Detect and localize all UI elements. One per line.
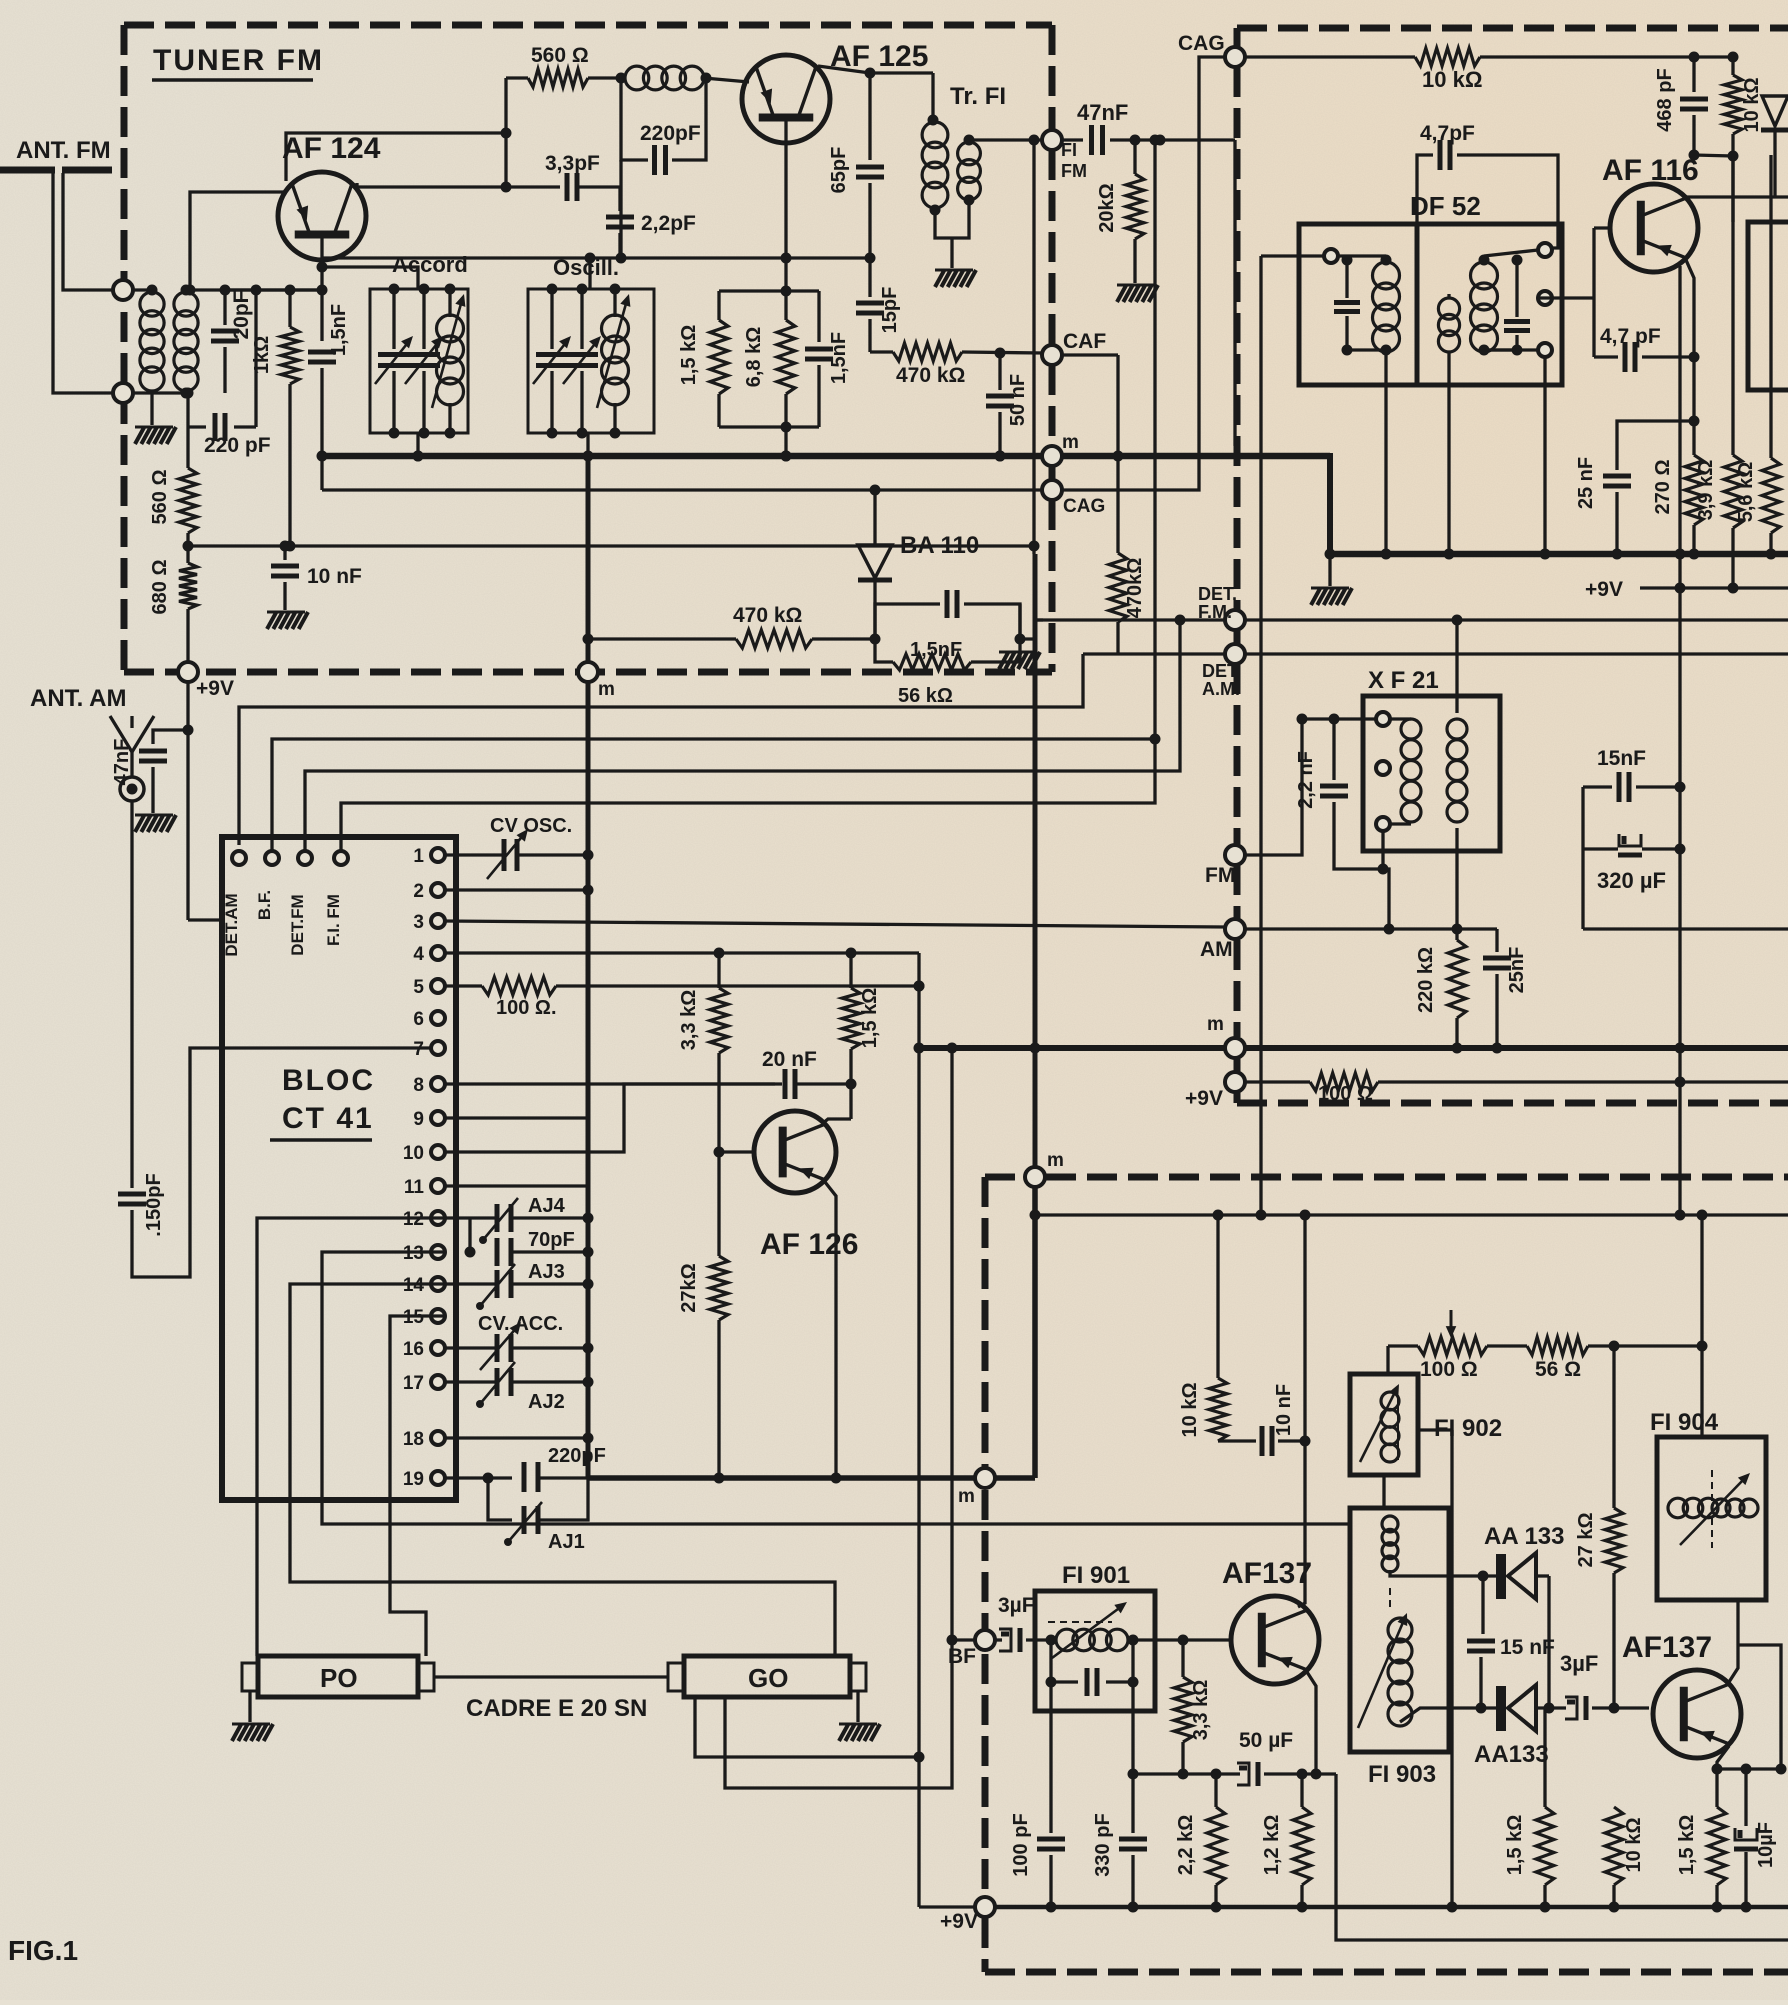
wire +9V feed vertical x1034 (1032, 140, 1035, 554)
wire AF137-2 collector to FI904 (1729, 1600, 1738, 1682)
resistor 3,9k ohm (1731, 155, 1734, 455)
pin 11 of BLOC CT41 (431, 1179, 445, 1193)
svg-text:9: 9 (413, 1109, 424, 1130)
TUNER FM block outline (dashed) (124, 25, 1052, 672)
wire DF52 mid tap to AF116 base (1538, 296, 1594, 299)
capacitor AJ4 on pin12 line (445, 1216, 497, 1219)
wire pin11 stub (445, 1184, 588, 1187)
svg-text:ANT. AM: ANT. AM (30, 685, 126, 712)
wire DF52 bottom node to rail (1543, 357, 1546, 554)
svg-text:10 kΩ: 10 kΩ (1179, 1383, 1201, 1438)
wire DF52 secondary bottom to rail (1447, 352, 1450, 554)
svg-text:m: m (958, 1486, 975, 1507)
wire W1 branch to GO (695, 1697, 919, 1757)
wire 10k bottom down to IF box (1731, 156, 1734, 222)
node AM (1225, 919, 1245, 939)
svg-text:+9V: +9V (196, 677, 234, 700)
wire AF126 emitter down (825, 1182, 836, 1478)
box Oscill tuned circuit (528, 289, 654, 433)
resistor 470k ohm detector (736, 630, 812, 648)
svg-text:Tr. FI: Tr. FI (950, 83, 1006, 110)
terminal cap GO right (850, 1663, 866, 1691)
wire main right vertical x1680 (1678, 266, 1681, 1215)
wire AF137-1 emitter down (1307, 1672, 1316, 1774)
svg-text:B.F.: B.F. (255, 890, 274, 920)
wire m rail corner down to IF rail (1327, 453, 1333, 554)
capacitor 330pF (1119, 1837, 1147, 1842)
resistor 27k ohm AM (1612, 1346, 1615, 1508)
svg-text:TUNER FM: TUNER FM (153, 44, 324, 77)
svg-text:AA 133: AA 133 (1484, 1523, 1564, 1550)
node m on lower box top border (1025, 1167, 1045, 1187)
svg-text:X F 21: X F 21 (1368, 667, 1439, 694)
svg-text:1,5 kΩ: 1,5 kΩ (1676, 1815, 1698, 1876)
AM IF block outline (dashed) (985, 1177, 1788, 1972)
wire antenna down (130, 801, 133, 1188)
svg-text:3,3 kΩ: 3,3 kΩ (1190, 1680, 1212, 1741)
capacitor 20pF (223, 290, 226, 325)
svg-text:470 kΩ: 470 kΩ (733, 604, 802, 627)
svg-text:4: 4 (413, 944, 424, 965)
svg-text:+9V: +9V (940, 1910, 978, 1933)
svg-text:CV OSC.: CV OSC. (490, 815, 572, 837)
inductor Accord tuning coil with arrow (448, 289, 451, 317)
wire to oscillator coil (588, 76, 621, 79)
svg-text:6,8 kΩ: 6,8 kΩ (743, 327, 765, 388)
pin 1 of BLOC CT41 (431, 848, 445, 862)
wire node to input coil (132, 288, 152, 291)
wire pin19 line with 220pF (445, 1476, 512, 1479)
wire pin14 left down to GO (290, 1284, 835, 1656)
svg-text:100 pF: 100 pF (1010, 1813, 1032, 1876)
capacitor AJ1 parallel (488, 1478, 512, 1520)
wire 470k det line (588, 637, 736, 640)
wire 680 ohm to +9V node (186, 609, 189, 663)
svg-text:CV. ACC.: CV. ACC. (478, 1313, 563, 1335)
wire AF137-2 emitter (1717, 1746, 1729, 1807)
capacitor 320uF electrolytic (1619, 834, 1641, 846)
wire pin9 stub (445, 1116, 588, 1119)
wire m AM rail (bold) (919, 1045, 1226, 1051)
resistor 470k ohm CAF (870, 350, 893, 353)
wire row to FI904 feed (1588, 1344, 1702, 1347)
svg-text:CAG: CAG (1063, 496, 1105, 517)
box FI901 (1035, 1591, 1155, 1711)
resistor 100 ohm pin5 (445, 984, 482, 987)
svg-text:1,2 kΩ: 1,2 kΩ (1261, 1815, 1283, 1876)
svg-text:3: 3 (413, 912, 424, 933)
wire 100 ohm right (1378, 1080, 1788, 1083)
inductor FM antenna coil secondary (174, 292, 198, 316)
svg-text:16: 16 (403, 1339, 424, 1360)
svg-text:DET.AM: DET.AM (222, 893, 241, 956)
svg-text:25nF: 25nF (1506, 947, 1528, 994)
box FI903 (1350, 1508, 1449, 1752)
svg-text:AJ1: AJ1 (548, 1531, 585, 1553)
wire FI904 top feed (1700, 1435, 1703, 1438)
node XF21 in bottom (1376, 817, 1390, 831)
wire pin18 to bus (445, 1436, 588, 1439)
resistor 10k ohm det (1605, 1807, 1623, 1885)
wire CAF to 470k branch (1061, 353, 1118, 356)
capacitor 220pF osc (522, 1462, 527, 1492)
pin 6 of BLOC CT41 (431, 1011, 445, 1025)
inductor FI902 coil with arrow (1381, 1392, 1399, 1410)
svg-text:AF 124: AF 124 (282, 132, 381, 165)
svg-text:70pF: 70pF (528, 1229, 575, 1251)
capacitor 20nF (783, 1069, 788, 1099)
transistor AF137 second (1653, 1670, 1741, 1758)
wire 1,5k tap (1543, 1708, 1546, 1807)
variable capacitor Accord 1 (392, 289, 395, 349)
wire Tr.FI secondary top to FI/FM node (969, 138, 1043, 141)
IF transformer box at page edge (clipped) (1748, 222, 1788, 390)
svg-text:320 µF: 320 µF (1597, 868, 1666, 893)
inductor Tr.FI primary (922, 122, 948, 148)
wire y290 input line (225, 288, 322, 291)
wire AF124 base lead down through 1.5nF chain (320, 234, 323, 341)
svg-text:10: 10 (403, 1143, 424, 1164)
capacitor 3uF BF electrolytic (994, 1638, 1002, 1641)
svg-text:25 nF: 25 nF (1575, 457, 1597, 509)
resistor 6,8k ohm (784, 291, 787, 320)
inductor DF52 secondary main coil (1471, 262, 1498, 289)
svg-text:F.M.: F.M. (1198, 602, 1232, 622)
inductor FI904 primary coil (1668, 1498, 1688, 1518)
wire +9V line FM IF (1640, 586, 1788, 589)
svg-text:15pF: 15pF (879, 287, 901, 334)
wire W2 BF column (725, 1048, 952, 1788)
wire AF137-2 feedback to FI904 secondary (1738, 1645, 1781, 1769)
wire AF124 collector line y187 (357, 183, 560, 187)
pin 3 of BLOC CT41 (431, 914, 445, 928)
wire m line to lower box (bold) (588, 1475, 1035, 1481)
wire FM node to XF21 top (1244, 719, 1376, 855)
wire AF137 collector vertical (1303, 1215, 1306, 1441)
wire FI902 feed (1386, 1346, 1389, 1374)
wire 220pF left post to AF125 base line (619, 160, 622, 258)
wire y393 to 560 ohm top (186, 393, 189, 418)
ground below input coil (150, 393, 153, 425)
wire 47nF to m node (1233, 140, 1236, 446)
wire 1,5k bottom to collector (849, 1049, 852, 1119)
svg-text:65pF: 65pF (828, 147, 850, 194)
resistor 1,5k ohm AA133 (1536, 1807, 1554, 1885)
svg-text:1: 1 (413, 846, 424, 867)
svg-text:1,5nF: 1,5nF (328, 304, 350, 356)
resistor 27k ohm (710, 1256, 728, 1320)
wire XF21 secondary top to DET FM line (1455, 620, 1458, 713)
svg-text:50 nF: 50 nF (1007, 374, 1029, 426)
svg-text:3µF: 3µF (1560, 1651, 1598, 1676)
svg-text:AM: AM (1200, 938, 1233, 961)
wire F.I.FM line (341, 140, 1155, 851)
capacitor DF52 primary (1334, 300, 1360, 305)
pin 4 of BLOC CT41 (431, 946, 445, 960)
svg-text:1kΩ: 1kΩ (251, 336, 273, 374)
wire oscillator feed vertical x506 (504, 78, 507, 187)
box Accord tuned circuit (370, 289, 468, 433)
capacitor FI901 parallel (1049, 1640, 1052, 1682)
svg-text:AF137: AF137 (1222, 1557, 1312, 1590)
transistor AF137 first (1231, 1596, 1319, 1684)
svg-text:15 nF: 15 nF (1500, 1636, 1555, 1659)
transistor AF124 (278, 172, 366, 260)
transistor AF116 (1610, 184, 1698, 272)
svg-text:CADRE E 20 SN: CADRE E 20 SN (466, 1695, 647, 1722)
resistor 1k ohm (288, 290, 291, 327)
pin DET.FM (298, 851, 312, 865)
node +9V on tuner border (178, 662, 198, 682)
svg-text:DET.: DET. (1202, 661, 1241, 681)
wire FI902 tap to x1452 (1418, 1428, 1452, 1431)
node DF52 secondary top (1538, 243, 1552, 257)
svg-text:AJ3: AJ3 (528, 1261, 565, 1283)
wire antenna to pin7 (132, 1048, 430, 1277)
svg-text:AJ2: AJ2 (528, 1391, 565, 1413)
box FI904 (1657, 1437, 1766, 1600)
wire pin3 to AM node (445, 921, 1226, 927)
wire BF from W2 (952, 1638, 976, 1641)
node DF52 secondary mid (1538, 291, 1552, 305)
wire FI901 out to AF137 base (1133, 1638, 1232, 1641)
capacitor 50nF (998, 353, 1001, 390)
node FM (1225, 845, 1245, 865)
pin DET.AM (232, 851, 246, 865)
svg-text:m: m (1062, 432, 1079, 453)
wire Accord top stub to AF124 base node (322, 267, 418, 289)
svg-text:FM: FM (1205, 864, 1235, 887)
resistor 270 ohm (1685, 455, 1703, 525)
resistor 560 ohm (186, 418, 189, 468)
wire upper diode to lower line (1547, 1576, 1550, 1708)
wire AF126 base (719, 1150, 752, 1153)
wire 3,3k bottom to base (717, 1053, 720, 1256)
wire x1336 down to +9V row (1336, 1774, 1788, 1940)
box PO winding (258, 1656, 418, 1697)
dashed coupling line FI903 (1389, 1588, 1391, 1612)
resistor 3,3k ohm AF137 base (1181, 1640, 1184, 1677)
svg-text:ANT. FM: ANT. FM (16, 137, 111, 164)
wire AF125 base lead (784, 117, 787, 291)
svg-text:20pF: 20pF (230, 290, 253, 339)
svg-text:7: 7 (413, 1039, 424, 1060)
capacitor 50uF electrolytic (1237, 1763, 1249, 1785)
wire FI903 primary to diode line (1390, 1570, 1449, 1576)
ground at ratio det (1015, 634, 1026, 645)
box FI902 (1350, 1374, 1418, 1475)
box XF21 ceramic filter (1363, 696, 1500, 851)
svg-text:3µF: 3µF (998, 1594, 1035, 1617)
wire 27k-10k tap (1612, 1573, 1615, 1708)
potentiometer 100 ohm with arrow (1418, 1337, 1487, 1355)
wire base bias line y291 (719, 289, 819, 292)
node m at lower box border (975, 1468, 995, 1488)
svg-text:50 µF: 50 µF (1239, 1729, 1293, 1752)
svg-text:18: 18 (403, 1429, 424, 1450)
svg-text:680 Ω: 680 Ω (149, 560, 171, 615)
wire 560-680 junction (186, 533, 189, 563)
capacitor 3uF det electrolytic (1565, 1697, 1577, 1719)
pin 5 of BLOC CT41 (431, 979, 445, 993)
svg-text:1,5 kΩ: 1,5 kΩ (1504, 1815, 1526, 1876)
resistor 1,5k ohm AF137-2 emitter (1708, 1807, 1726, 1885)
svg-text:3,9 kΩ: 3,9 kΩ (1695, 460, 1717, 521)
wire AF124 input leg from coil (190, 192, 286, 290)
capacitor 1,5nF ratio det (875, 604, 940, 639)
wire 470k to CAF node (962, 352, 1043, 353)
wire PO left to ground (248, 1691, 251, 1722)
capacitor 220pF input (188, 425, 206, 428)
svg-text:+9V: +9V (1185, 1087, 1223, 1110)
svg-text:FI 901: FI 901 (1062, 1562, 1130, 1589)
wire CAG to top CAG node via x1199 (1061, 57, 1226, 490)
capacitor 10nF (1218, 1439, 1256, 1442)
svg-text:2,2 kΩ: 2,2 kΩ (1175, 1815, 1197, 1876)
svg-text:5,6 kΩ: 5,6 kΩ (1735, 462, 1757, 523)
node DET AM (1225, 644, 1245, 664)
svg-text:F.I. FM: F.I. FM (324, 894, 343, 946)
svg-text:47nF: 47nF (1077, 100, 1128, 125)
resistor 10k ohm AM IF (1216, 1215, 1219, 1378)
connector AM antenna socket (120, 777, 144, 801)
wires DF52 secondary cell (1484, 250, 1538, 256)
resistor 3,3k ohm AF126 (710, 988, 728, 1053)
wire +9V feed down to bloc (186, 681, 189, 920)
capacitor 2,2pF (618, 187, 621, 211)
pin 16 of BLOC CT41 (431, 1341, 445, 1355)
svg-text:330 pF: 330 pF (1092, 1813, 1114, 1876)
svg-text:AA133: AA133 (1474, 1741, 1549, 1768)
svg-text:1,5 kΩ: 1,5 kΩ (678, 325, 700, 386)
capacitor .150pF (118, 1192, 146, 1197)
wire DET AM down-left to BLOC (239, 654, 1083, 845)
resistor 10k ohm vertical (1731, 57, 1734, 75)
diode AA133 lower (1449, 1706, 1496, 1709)
svg-text:100 Ω: 100 Ω (1420, 1358, 1478, 1381)
variable capacitor Accord 2 (422, 289, 425, 349)
inductor FI901 coil with arrow (1056, 1629, 1078, 1651)
svg-text:220 pF: 220 pF (204, 434, 271, 457)
capacitor 65pF (868, 73, 871, 160)
pin 9 of BLOC CT41 (431, 1111, 445, 1125)
capacitor 4,7pF DF52 top (1417, 155, 1433, 224)
node m on tuner bottom border (578, 662, 598, 682)
inductor FI903 secondary coil with arrow (1388, 1618, 1412, 1642)
resistor 1,5k ohm (717, 291, 720, 320)
wire potentiometer row (1388, 1344, 1418, 1347)
wire collector node bracket (1694, 155, 1733, 156)
node CAG top (1225, 47, 1245, 67)
svg-text:A.M.: A.M. (1202, 679, 1240, 699)
svg-text:AJ4: AJ4 (528, 1195, 566, 1217)
wire CAG line inside tuner (322, 488, 1043, 491)
wire AF125 base line y258 (322, 256, 870, 259)
pin 18 of BLOC CT41 (431, 1431, 445, 1445)
svg-text:10 nF: 10 nF (307, 565, 362, 588)
capacitor 4,7pF base-emitter (1592, 298, 1595, 357)
svg-text:1,5 kΩ: 1,5 kΩ (859, 988, 881, 1049)
variable capacitor CV OSC on pin1 line (445, 853, 504, 856)
capacitor 10uF electrolytic (1744, 1769, 1747, 1826)
node DF52 primary top (1324, 249, 1338, 263)
diode at page edge (clipped) (1762, 96, 1788, 126)
ground at m rail corner (1328, 554, 1331, 586)
svg-text:AF 126: AF 126 (760, 1228, 858, 1261)
svg-text:2,2 nF: 2,2 nF (1295, 751, 1317, 809)
wire antenna to input nodes (53, 173, 114, 393)
wire AF125 collector to Tr.FI (818, 66, 933, 73)
pin 8 of BLOC CT41 (431, 1077, 445, 1091)
wire bias bus to m rail (784, 427, 787, 456)
wire W1 pin4 column down to +9V rail (917, 953, 920, 1907)
capacitor AJ2 on pin17 line (445, 1380, 497, 1383)
inductor FI904 secondary coil with arrow (1712, 1499, 1730, 1517)
terminal cap PO left (242, 1663, 258, 1691)
svg-text:CAG: CAG (1178, 32, 1225, 55)
wire pin4 feed verticals (717, 953, 720, 988)
inductor Oscill tuning coil with arrow (613, 289, 616, 317)
resistor 20k ohm (1133, 140, 1136, 174)
svg-text:20 nF: 20 nF (762, 1048, 817, 1071)
node XF21 in mid (1376, 761, 1390, 775)
wire pin12 left down to PO (257, 1218, 445, 1656)
svg-text:470kΩ: 470kΩ (1124, 558, 1146, 619)
capacitor 15nF AGC (1583, 785, 1612, 788)
svg-text:220 kΩ: 220 kΩ (1415, 947, 1437, 1013)
pin 14 of BLOC CT41 (431, 1277, 445, 1291)
node BF (975, 1630, 995, 1650)
capacitor 1,5nF AF125 (817, 291, 820, 342)
wire m ground rail (bold) (320, 453, 1330, 460)
inductor FI903 primary coil (1382, 1516, 1398, 1532)
node +9V AM (1225, 1072, 1245, 1092)
terminal cap PO right (418, 1663, 434, 1691)
wire FI903 bottom vertical to rail (1450, 1430, 1453, 1907)
svg-text:27 kΩ: 27 kΩ (1575, 1513, 1597, 1568)
svg-text:10 kΩ: 10 kΩ (1741, 78, 1763, 133)
svg-text:220pF: 220pF (640, 122, 701, 145)
pin 2 of BLOC CT41 (431, 883, 445, 897)
pin 10 of BLOC CT41 (431, 1145, 445, 1159)
svg-text:20kΩ: 20kΩ (1096, 183, 1118, 232)
svg-text:468 pF: 468 pF (1654, 68, 1676, 131)
wire AF124 emitter to tank feed (286, 133, 506, 181)
wires DF52 primary cell (1338, 254, 1386, 257)
resistor 2,2k ohm (1214, 1774, 1217, 1807)
wire emitter row to 10uF (1717, 1767, 1781, 1770)
wire DF52 secondary bottom bus (1484, 348, 1538, 351)
resistor 220k ohm (1448, 940, 1466, 1018)
transistor AF126 (754, 1111, 836, 1193)
node +9V lower box (975, 1897, 995, 1917)
wires XF21 internal (1390, 717, 1411, 720)
wire pin15 left down to PO cap (390, 1316, 445, 1656)
wire Accord bottom tap to m rail (416, 433, 419, 456)
inductor DF52 primary coil (1373, 262, 1400, 289)
wire CAG rail right (1480, 55, 1733, 58)
wire PO-GO link (434, 1675, 668, 1678)
inductor FM antenna coil primary (140, 292, 164, 316)
variable capacitor Oscill 1 (550, 289, 553, 349)
pin 13 of BLOC CT41 (431, 1245, 445, 1259)
svg-text:4,7 pF: 4,7 pF (1600, 325, 1661, 348)
transistor AF125 (742, 55, 830, 143)
svg-text:270 Ω: 270 Ω (1652, 460, 1674, 515)
svg-text:FI 903: FI 903 (1368, 1761, 1436, 1788)
resistor 56k ohm (875, 639, 893, 662)
wire XF21 secondary bottom to 220k (1455, 828, 1458, 940)
